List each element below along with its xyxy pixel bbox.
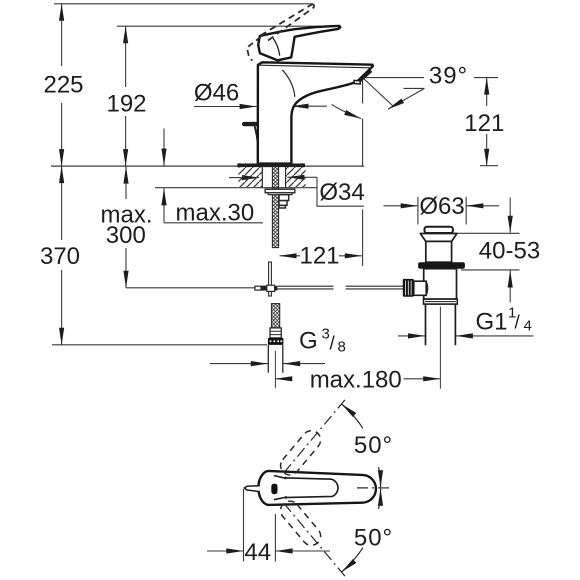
dimension max300: [125, 167, 127, 199]
dimension G3/8: [210, 363, 268, 365]
svg-text:Ø63: Ø63: [419, 193, 464, 220]
svg-text:121: 121: [464, 110, 504, 137]
hose nut black: [268, 338, 284, 345]
drain inner stem curve: [426, 281, 427, 295]
svg-text:39°: 39°: [429, 63, 468, 90]
flow direction arc: [332, 104, 361, 118]
top view front tab: [244, 486, 260, 492]
reference line handle tip (192 datum): [117, 25, 339, 27]
tee body: [267, 285, 275, 291]
svg-text:50°: 50°: [354, 525, 393, 552]
dimension 44: [244, 489, 276, 562]
drain knurled knob: [403, 279, 414, 297]
svg-text:4: 4: [524, 318, 532, 335]
hose crimp: [270, 328, 281, 338]
dimension max180: [275, 378, 292, 380]
svg-text:max.30: max.30: [176, 200, 255, 227]
aerator tab: [354, 80, 360, 84]
svg-text:40-53: 40-53: [479, 237, 540, 264]
svg-text:max.180: max.180: [310, 366, 402, 393]
body-spout junction curve: [282, 70, 294, 97]
dimension 225: [61, 4, 63, 66]
arc 50 bottom: [379, 489, 381, 509]
dimension 40-53: [453, 233, 520, 270]
tee dark block right: [275, 286, 278, 291]
svg-text:225: 225: [43, 71, 83, 98]
svg-text:300: 300: [106, 222, 146, 249]
aerator dark band: [358, 71, 372, 83]
drain tailpipe: [426, 304, 456, 345]
horizontal pop-up rod: [277, 286, 403, 289]
dimension max30 lower arrow and leader: [163, 188, 165, 222]
tube centerline: [274, 351, 276, 388]
pull rod vertical: [269, 262, 272, 296]
svg-text:370: 370: [40, 243, 80, 270]
centerline 50 up: [284, 397, 348, 473]
stepped guide blocks: [279, 195, 289, 201]
dimension 192: [125, 26, 127, 87]
dimension D63: [418, 197, 466, 225]
svg-text:/: /: [330, 334, 336, 355]
spout inner top line: [259, 65, 370, 68]
dimension max30 upper arrow: [163, 129, 165, 166]
drain centerline: [439, 307, 441, 389]
faucet deck hatch left: [239, 167, 263, 187]
drain pull rod hook at body: [244, 122, 256, 126]
svg-text:Ø34: Ø34: [319, 179, 364, 206]
faucet deck hatch right: [286, 167, 306, 187]
braided hose: [272, 304, 280, 328]
drain o-ring seal: [418, 262, 465, 269]
svg-text:/: /: [515, 313, 521, 334]
handle lever solid: [258, 26, 340, 60]
tee end cap: [255, 286, 261, 290]
dimension D34 arrows at deck: [229, 177, 259, 179]
svg-text:192: 192: [106, 91, 146, 118]
top view solid handle: [258, 471, 376, 505]
threaded shank: [272, 166, 278, 248]
faucet base plate: [237, 164, 305, 168]
washer flange: [265, 189, 295, 193]
dashed handle cone: [247, 37, 261, 61]
dimension 121 horizontal: [280, 255, 301, 257]
handle cone inner line: [273, 38, 280, 56]
svg-text:8: 8: [338, 339, 346, 356]
drain upper body: [426, 241, 452, 262]
svg-text:121: 121: [299, 243, 339, 270]
dimension G1 1/4: [398, 335, 425, 337]
tee dark block left: [261, 286, 267, 291]
deck bottom line: [155, 187, 317, 189]
top view inner lever outline: [284, 478, 338, 498]
dimension 121 vertical right: [474, 77, 498, 79]
svg-text:50°: 50°: [354, 432, 393, 459]
dashed handle at +50: [277, 427, 325, 479]
drain plug cap: [425, 227, 453, 233]
mounting hole edges: [262, 166, 285, 188]
39 degree leader arrow: [404, 87, 425, 89]
39 degree diagonal ray: [363, 78, 393, 106]
39 degree horizontal ray: [363, 77, 424, 79]
svg-text:44: 44: [244, 539, 271, 566]
dashed handle raised position: [261, 4, 313, 35]
extension line below spout tip: [362, 78, 364, 266]
drain knob stem: [414, 281, 426, 295]
top view black recess mark: [271, 484, 277, 495]
deck top line: [51, 165, 364, 167]
arc 50 top: [342, 404, 363, 428]
svg-text:G: G: [299, 328, 318, 355]
faucet body and spout: [258, 62, 373, 163]
drain bottom ring: [424, 299, 458, 304]
dimension D34 leader and underline: [317, 177, 364, 206]
drain plug lip: [420, 234, 457, 242]
svg-text:G1: G1: [476, 309, 508, 336]
centerline horizontal: [357, 487, 393, 489]
dashed handle at -50: [277, 497, 325, 549]
drain lower body: [424, 269, 457, 299]
connection tube: [268, 345, 283, 373]
dimension D46 leader: [194, 106, 257, 108]
max300 bottom reference line: [126, 287, 255, 289]
reference line top (225 datum): [54, 3, 313, 5]
dimension 370: [61, 166, 63, 240]
svg-text:Ø46: Ø46: [194, 79, 239, 106]
370 bottom reference line: [52, 344, 267, 346]
centerline 50 down: [284, 503, 348, 579]
